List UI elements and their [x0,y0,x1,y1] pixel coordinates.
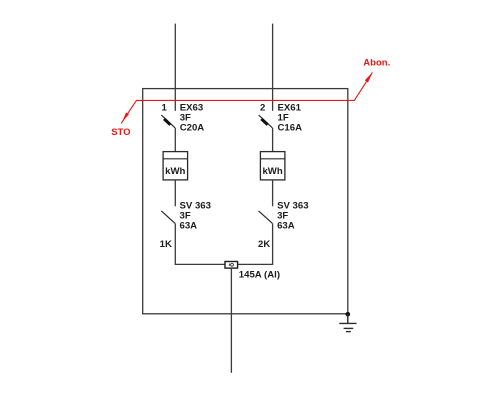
svg-text:2K: 2K [258,239,270,250]
wire: breaker Q2 to meter 2 [272,128,274,152]
arrowhead to Abon. [365,72,373,82]
arrowhead to STO [122,112,129,121]
wire: breaker Q1 to meter 1 [174,128,176,152]
ground [339,314,356,331]
breaker Q1 blade [161,115,175,128]
breaker Q2 blade [259,115,273,128]
wire: bottom bus right segment [238,263,274,265]
svg-text:2: 2 [260,102,265,113]
wire: meter 2 to switch SV2 [272,180,274,206]
switch SV2 blade [259,211,273,223]
svg-text:C20A: C20A [180,122,205,133]
meter kWh 2 [260,152,285,180]
svg-text:C16A: C16A [278,122,303,133]
svg-text:1K: 1K [160,239,172,250]
wire: outgoing feeder [230,268,232,373]
wire: bottom bus left segment [175,263,225,265]
svg-text:kWh: kWh [165,166,185,177]
wire: incoming feeder 1 [174,24,176,111]
link 145A (Al) inner mark [229,263,233,266]
wire: switch SV2 to bottom bus [272,223,274,265]
breaker Q1 body mark [163,118,171,126]
enclosure box [143,89,348,314]
wire: switch SV1 to bottom bus [174,223,176,265]
svg-text:145A (Al): 145A (Al) [239,270,280,281]
svg-text:1: 1 [161,102,167,113]
svg-text:63A: 63A [180,220,198,231]
switch SV1 blade [161,211,175,223]
wire: incoming feeder 2 [272,24,274,111]
svg-text:Abon.: Abon. [363,57,390,68]
svg-text:STO: STO [111,127,130,138]
wire: meter 1 to switch SV1 [174,180,176,206]
node: earth junction [346,312,351,317]
breaker Q2 body mark [260,118,268,126]
svg-text:kWh: kWh [262,166,282,177]
red supply boundary line [121,72,372,123]
svg-text:63A: 63A [277,220,295,231]
meter kWh 1 [163,152,188,180]
link/fuse 145A (Al) body [225,262,238,269]
